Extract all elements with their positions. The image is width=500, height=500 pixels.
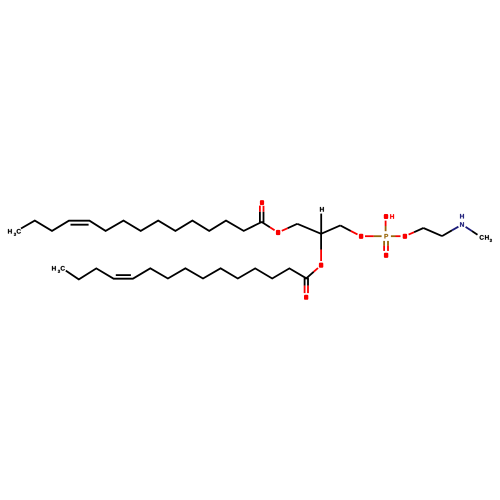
atom O (ester oxygen, top chain / sn-1) <box>276 230 280 235</box>
atom O (P=O oxygen) <box>384 253 388 258</box>
atom label N (secondary amine nitrogen) <box>460 222 464 226</box>
carbonyl C=O double bond of top ester (line 2) <box>263 206 265 223</box>
bond sn-2 ester O to bottom carbonyl C <box>306 268 318 278</box>
bottom carbonyl apex junction <box>304 277 309 279</box>
bond P-OH (phosphorus to hydroxyl) <box>385 221 387 232</box>
atom label H on amine N <box>460 214 464 218</box>
double bond P=O (line 2) <box>387 241 389 251</box>
top chain cis double bond C11=C12 inner line <box>71 224 89 226</box>
bond O-P (left phosphoester O to phosphorus) <box>365 235 382 237</box>
carbonyl C=O double bond of bottom ester (line 1) <box>304 278 306 293</box>
top acyl chain skeleton: zigzag C-C bonds incl. C11=C12 main line <box>21 221 262 231</box>
bond glycerol C2-C3 <box>321 225 340 233</box>
bond ethanolamine C1-C2 <box>423 228 442 236</box>
atom label P (phosphorus) <box>384 234 388 238</box>
bond glycerol C1-C2 <box>297 224 321 234</box>
atom O (phosphoester oxygen right of P) <box>403 234 407 239</box>
atom label H3C (terminal methyl, bottom acyl chain) <box>52 266 65 273</box>
atom label CH3 (N-methyl) <box>480 235 492 242</box>
double bond P=O (line 1) <box>383 241 385 251</box>
atom O (carbonyl oxygen, top ester) <box>260 200 264 205</box>
carbonyl C=O double bond of bottom ester (line 2) <box>307 278 309 293</box>
bond C1-O (top ester C to ester O) <box>262 222 275 230</box>
bond C2-H (central methine H) <box>320 214 322 234</box>
carbonyl C=O double bond of top ester (line 1) <box>259 206 261 223</box>
bond P-O (phosphorus to right phosphoester O) <box>391 235 401 237</box>
bond glycerol C2-O (sn-2 ester O) <box>320 234 322 261</box>
bottom chain cis double bond inner line <box>116 274 131 276</box>
bond O-CH2 (right phosphoester O to ethanolamine C1) <box>409 228 424 235</box>
atom label OH (P hydroxyl): O blob + H <box>384 214 388 219</box>
atom label H3C (terminal methyl, top acyl chain) <box>8 229 21 236</box>
bond C2-N (ethanolamine C2 to amine N) <box>442 227 458 236</box>
atom O (carbonyl oxygen, bottom ester) <box>304 295 308 300</box>
bond glycerol C3-O (phosphoester O) <box>340 225 357 234</box>
atom label H on glycerol C2 <box>320 207 324 212</box>
bond N-CH3 (N-methyl bond) <box>466 227 478 235</box>
top carbonyl apex junction <box>259 221 264 223</box>
bond O-CH2 (top ester O to glycerol C1) <box>282 224 298 231</box>
bottom acyl chain skeleton: zigzag C-C bonds incl. C11=C12 main line <box>66 268 306 279</box>
atom O (phosphoester oxygen left of P) <box>359 234 363 239</box>
atom O (ester oxygen, bottom chain / sn-2) <box>319 263 323 268</box>
